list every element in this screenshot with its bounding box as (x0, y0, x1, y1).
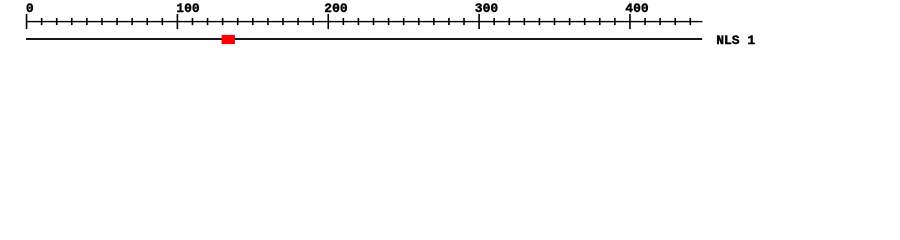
svg-text:0: 0 (26, 1, 34, 16)
ruler axis line (26, 21, 702, 22)
background (0, 0, 900, 58)
svg-text:NLS 1: NLS 1 (716, 33, 755, 48)
svg-text:300: 300 (475, 1, 499, 16)
svg-text:200: 200 (324, 1, 348, 16)
motif box NLS 1 (red) (222, 35, 235, 44)
svg-text:100: 100 (176, 1, 200, 16)
sequence feature line (26, 38, 702, 40)
svg-text:400: 400 (625, 1, 649, 16)
ruler ticks (26, 14, 28, 29)
